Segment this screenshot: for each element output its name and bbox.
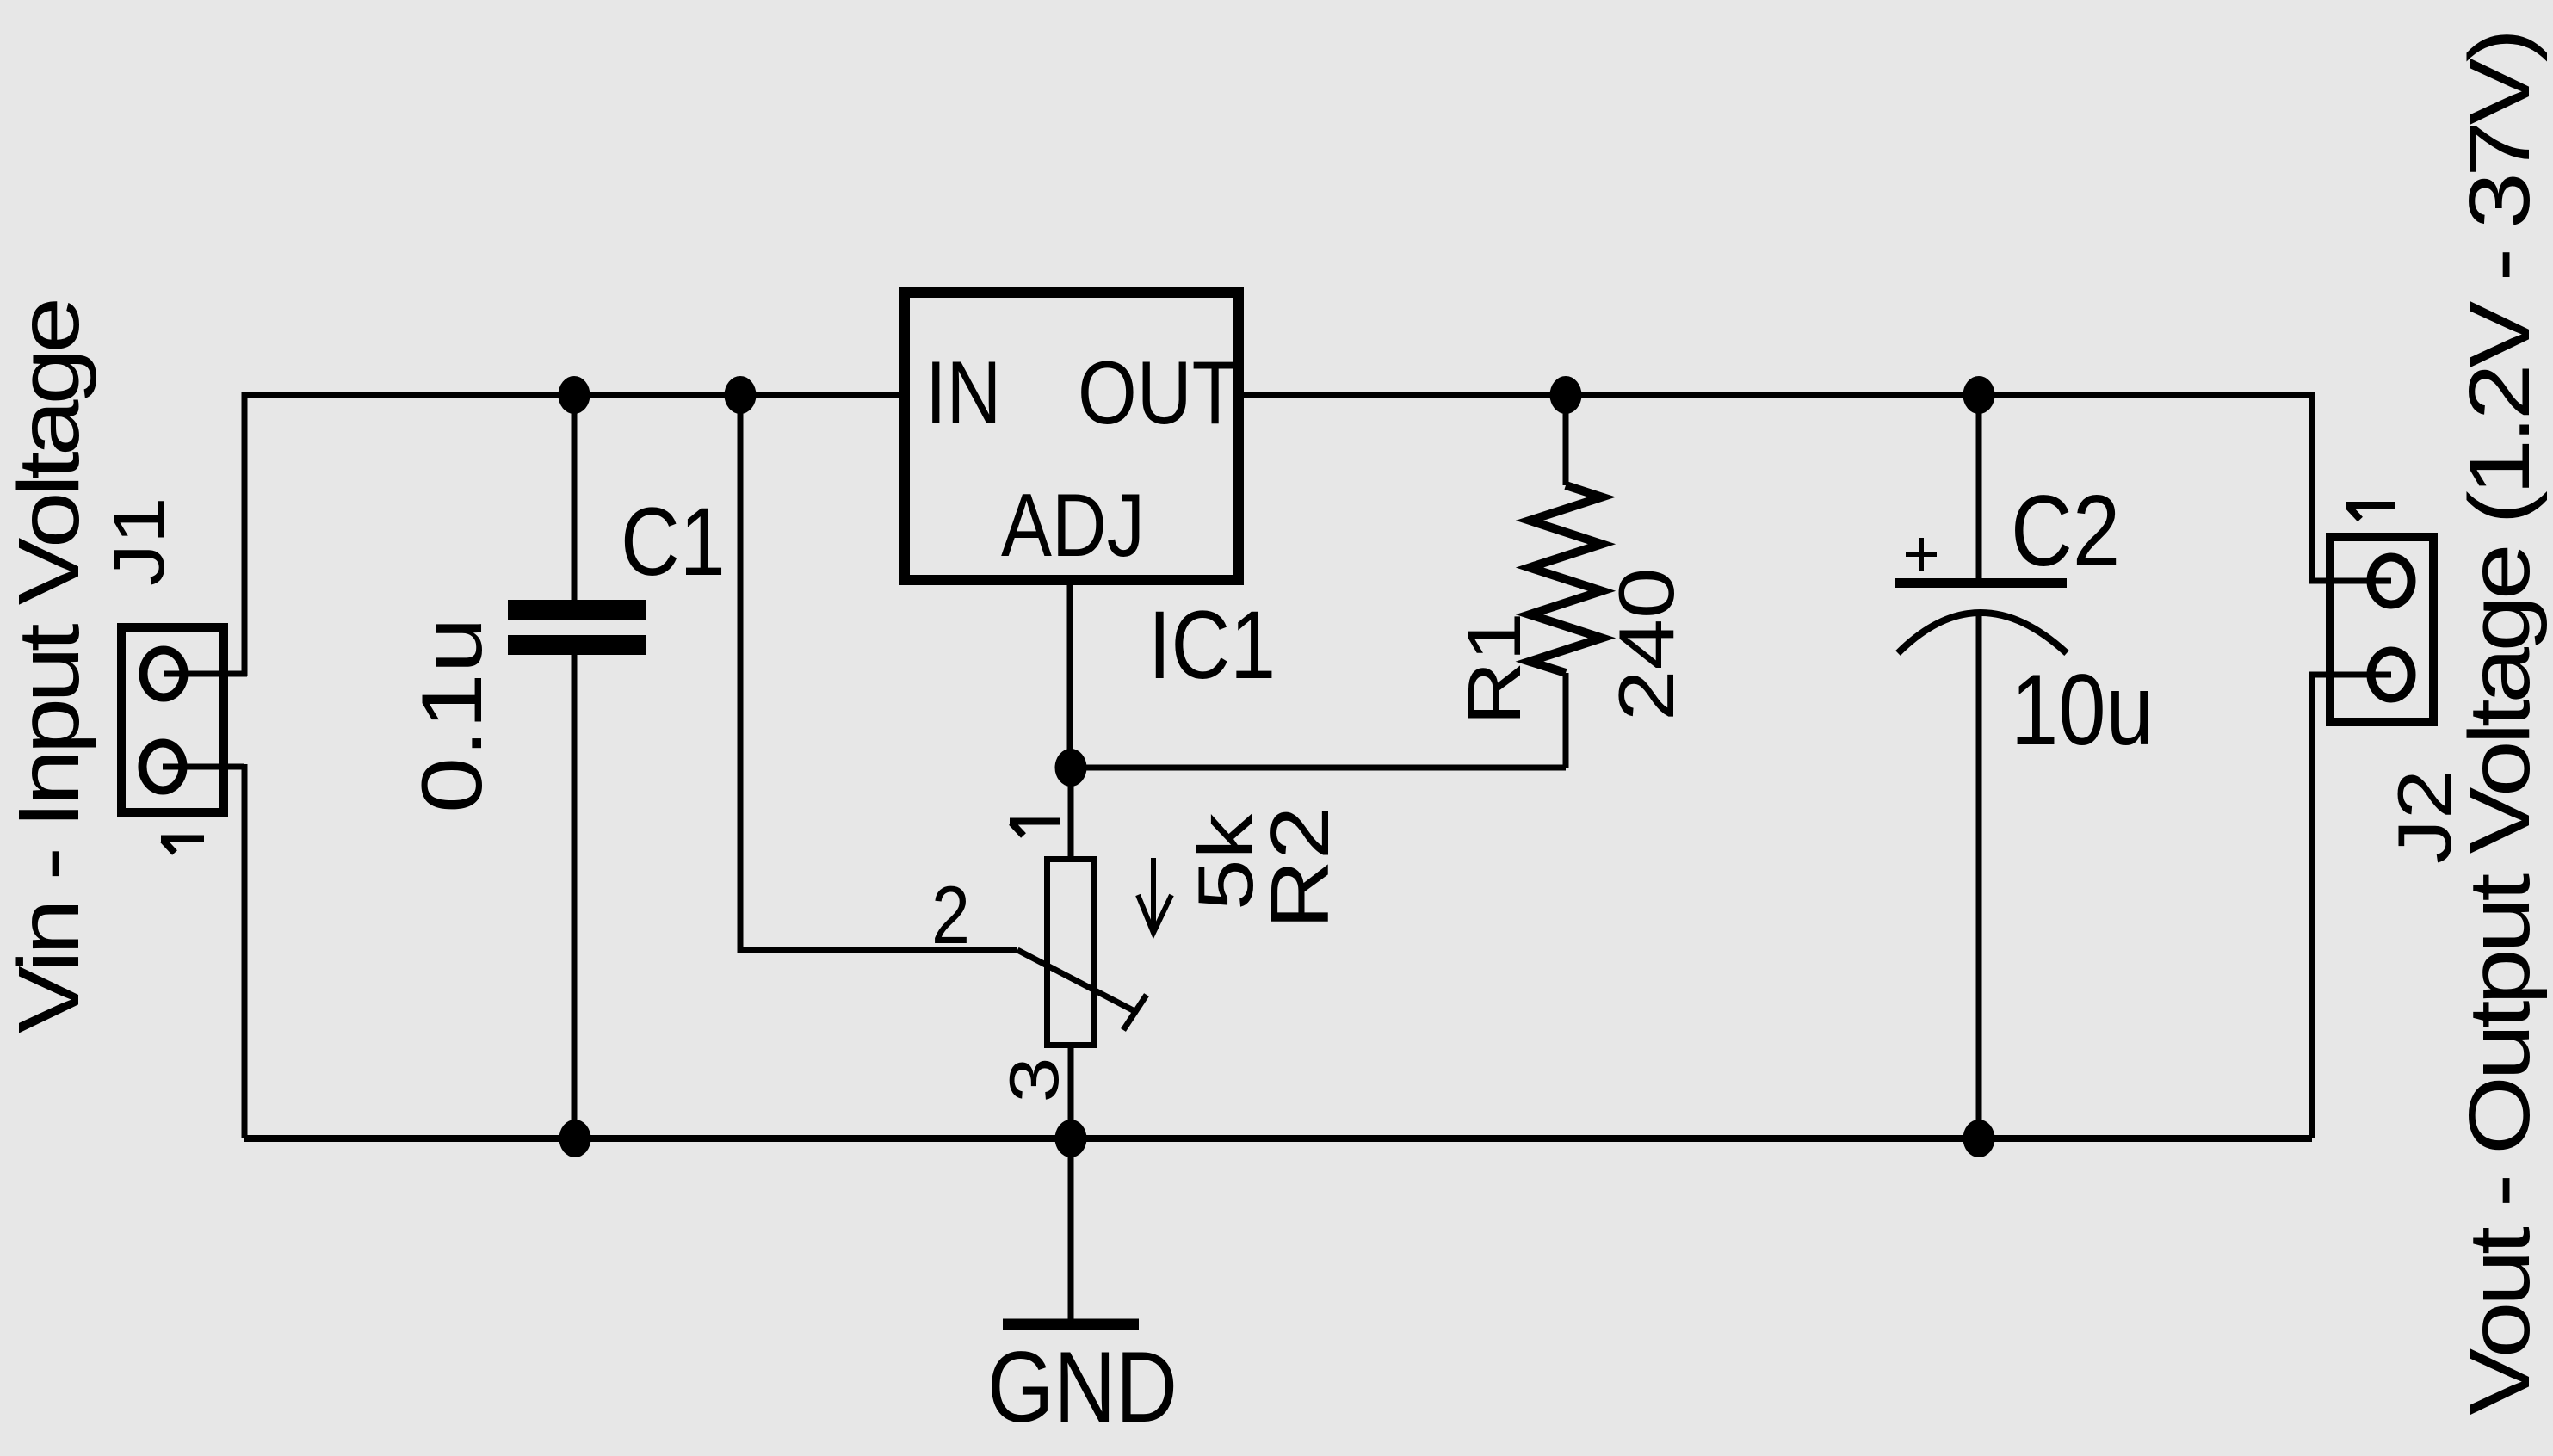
wire R1 bottom lead [1563,673,1569,768]
wire IC1 ADJ lead [1067,580,1073,768]
svg-text:C1: C1 [621,489,726,596]
wire GND lead [1068,1138,1074,1319]
node junction R1 top [1550,376,1582,414]
svg-text:10u: 10u [2011,654,2154,766]
potentiometer R2 body [1048,860,1095,1046]
svg-text:2: 2 [931,869,970,961]
svg-text:OUT: OUT [1078,343,1239,442]
potentiometer R2 wiper diagonal [1017,950,1138,1013]
ground symbol bar [1003,1319,1139,1330]
wire J1 pin1 stub [163,764,244,770]
wire C2 top lead [1976,395,1982,578]
svg-text:3: 3 [995,1058,1073,1103]
svg-text:Vin - Input Voltage: Vin - Input Voltage [1,297,97,1033]
capacitor C2 curved plate [1898,613,2067,653]
wire top rail left (J1 to IC1 IN) [244,395,905,676]
wire ADJ node to R1 bottom [1070,765,1566,771]
potentiometer R2 adjust arrow shaft [1151,858,1156,928]
capacitor C2 top plate [1895,578,2067,588]
connector J1 body [121,627,224,812]
svg-text:R2: R2 [1255,806,1346,929]
capacitor C1 top plate [508,600,646,620]
svg-text:0.1u: 0.1u [405,617,500,813]
svg-text:IN: IN [925,343,1001,442]
pin number 1 of J2 [2346,505,2395,520]
connector J1 pad 1 [143,743,183,791]
connector J1 pad 2 [144,651,184,698]
svg-text:J1: J1 [100,497,180,586]
node junction C2 bottom [1963,1120,1995,1157]
wire bottom rail [244,1135,2312,1142]
wire R1 top lead [1563,395,1569,485]
node junction C2 top [1963,376,1995,414]
connector J2 body [2330,537,2433,722]
op-amp IC1 regulator body [905,293,1239,580]
node junction GND [1055,1120,1087,1157]
wire C1 bottom lead [572,652,578,1138]
capacitor C2 plus sign [1906,538,1937,571]
node junction wiper feed [725,376,757,414]
wire from top rail to R2 wiper [740,395,1017,950]
pin number 1 of J1 [161,839,204,854]
potentiometer R2 adjust arrow head [1138,895,1171,933]
wire top rail right (IC1 OUT to J2) [1239,395,2391,581]
potentiometer R2 wiper end tick [1123,995,1147,1030]
node junction C1 top [559,376,590,414]
wire left vertical to bottom rail [242,764,248,1138]
connector J2 pad 2 [2371,651,2412,699]
pin number 1 of R2 [1010,822,1060,836]
connector J2 pad 1 [2371,558,2412,605]
wire C2 bottom lead [1976,613,1982,1138]
svg-text:ADJ: ADJ [1001,476,1145,575]
svg-text:240: 240 [1603,567,1691,721]
node junction ADJ [1055,749,1087,787]
svg-text:GND: GND [987,1331,1178,1443]
wire R2 pin1 lead [1068,768,1074,860]
svg-text:R1: R1 [1452,612,1536,725]
resistor R1 zigzag [1530,485,1602,673]
node junction C1 bottom [559,1120,591,1157]
svg-text:C2: C2 [2011,475,2120,587]
capacitor C1 bottom plate [508,635,646,655]
wire J2 pin1 stub to bottom rail [2312,675,2391,1138]
wire C1 top lead [572,395,578,602]
svg-text:Vout - Output Voltage (1.2V -: Vout - Output Voltage (1.2V - 37V) [2451,28,2548,1416]
svg-text:IC1: IC1 [1148,592,1276,700]
wire R2 pin3 lead [1068,1046,1074,1138]
wire J1 pin2 stub [164,671,247,677]
